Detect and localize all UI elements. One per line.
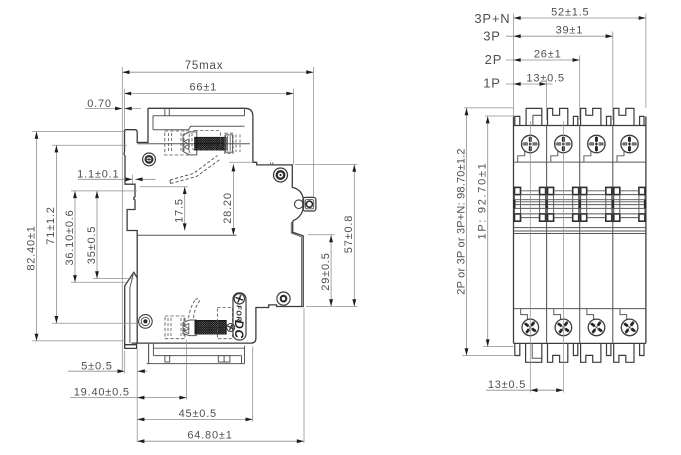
bottom terminal clamp (dashed box): [165, 316, 185, 339]
screw side bottom-left: [139, 315, 153, 329]
front view: lines below terminal band: [514, 228, 646, 234]
front view: line under handle area: [514, 161, 646, 163]
top terminal screw shank (hatched): [192, 131, 233, 153]
svg-text:3P+N: 3P+N: [474, 11, 510, 26]
dim 45±0.5 (bottom): [137, 347, 253, 422]
DIN latch spring plate: [295, 197, 316, 211]
front view: top screws row (phillips): [518, 135, 639, 162]
front view: terminal boxes band: [513, 187, 646, 221]
side view: internal mid line (rail top): [137, 234, 236, 236]
front view: bottom screws section line: [514, 308, 646, 310]
svg-text:19.40±0.5: 19.40±0.5: [74, 387, 130, 399]
bottom terminal screw head circle: [227, 324, 235, 332]
label 3P+N: [474, 11, 510, 26]
front view: top crenellation (handle tabs): [515, 108, 644, 125]
svg-text:17.5: 17.5: [174, 198, 186, 223]
dim 19.40±0.5 (bottom): [70, 340, 187, 400]
svg-text:36.10±0.6: 36.10±0.6: [64, 209, 76, 265]
side view: step ticks: [271, 162, 273, 165]
svg-text:28.20: 28.20: [222, 192, 234, 224]
top terminal jaw: [183, 132, 197, 155]
dim 39±1: [506, 25, 613, 120]
svg-text:1P: 92.70±1: 1P: 92.70±1: [477, 162, 489, 240]
dim 66±1: [124, 82, 294, 165]
bottom terminal lever (dashed): [189, 299, 200, 318]
dim 35±0.5 (vertical): [71, 191, 137, 279]
side view: internal top lines: [137, 108, 250, 143]
dim 0.70: [85, 98, 141, 110]
dim 71±1.2 (vertical): [45, 145, 141, 323]
top terminal right dashed box: [225, 133, 240, 153]
svg-text:52±1.5: 52±1.5: [551, 6, 589, 18]
dim 52±1.5 (front top): [514, 6, 646, 116]
label 3P: [483, 29, 501, 44]
svg-text:13±0.5: 13±0.5: [488, 379, 526, 391]
svg-text:29±0.5: 29±0.5: [320, 252, 332, 290]
front view: bottom screws row (pozidriv): [519, 309, 641, 339]
dim 17.5 (vertical): [140, 187, 188, 231]
svg-text:1.1±0.1: 1.1±0.1: [77, 169, 119, 181]
dim 82.40±1 (vertical left): [25, 132, 126, 341]
dim 98.70±1.2 (front left): [455, 108, 513, 356]
dim 29±0.5 (vertical right): [306, 235, 358, 307]
svg-text:82.40±1: 82.40±1: [25, 225, 37, 270]
moving contact path (dashed): [170, 156, 221, 184]
svg-text:3P: 3P: [483, 29, 501, 44]
svg-text:2P: 2P: [485, 52, 503, 67]
svg-text:2P or 3P or 3P+N: 98.70±1.2: 2P or 3P or 3P+N: 98.70±1.2: [455, 148, 467, 295]
dim 28.20 (vertical): [222, 162, 253, 235]
FOR DC label plate: [232, 293, 246, 340]
screw side top-left: [143, 153, 156, 166]
svg-text:5±0.5: 5±0.5: [81, 360, 112, 372]
side view: breaker body outline: [124, 108, 304, 348]
DIN rail foot under body: [147, 343, 245, 364]
dim 92.70±1 (front inner left): [477, 116, 514, 347]
dim 36.10±0.6 (vertical): [64, 191, 126, 282]
front view: bottom tabs: [515, 343, 644, 362]
front view: pole separators: [547, 126, 613, 344]
svg-text:71±1.2: 71±1.2: [45, 206, 57, 244]
side view: right edge inner line: [291, 222, 301, 306]
svg-text:26±1: 26±1: [534, 48, 562, 60]
dim 13±0.5 (front bottom): [486, 121, 563, 393]
screw side bottom-right: [277, 292, 290, 305]
svg-text:66±1: 66±1: [190, 82, 218, 94]
side view: inner hook line: [130, 274, 133, 343]
front view: body outer edges: [514, 116, 646, 343]
dim 1.1±0.1: [77, 169, 155, 184]
dim 26±1: [506, 48, 580, 120]
label 1P: [483, 75, 501, 90]
dim 13±0.5 (front top): [506, 72, 565, 120]
svg-text:75max: 75max: [185, 60, 224, 72]
dim 5±0.5 (bottom): [68, 349, 148, 442]
label 2P: [485, 52, 503, 67]
bottom terminal screw shank (hatched): [195, 321, 226, 335]
dim 57±0.8 (vertical right): [295, 165, 358, 307]
svg-text:35±0.5: 35±0.5: [86, 226, 98, 264]
svg-text:39±1: 39±1: [556, 25, 584, 37]
dim 75max: [122, 60, 313, 371]
dim 64.80±1 (bottom): [137, 308, 304, 443]
svg-text:57±0.8: 57±0.8: [343, 215, 355, 253]
bottom terminal jaw: [183, 320, 196, 336]
top terminal clamp (dashed box): [165, 131, 189, 155]
svg-text:64.80±1: 64.80±1: [187, 430, 232, 442]
svg-text:45±0.5: 45±0.5: [179, 408, 217, 420]
screw side top-right: [274, 168, 288, 182]
bottom terminal right dashed box: [217, 308, 232, 339]
svg-text:13±0.5: 13±0.5: [526, 72, 564, 84]
svg-text:1P: 1P: [483, 75, 501, 90]
